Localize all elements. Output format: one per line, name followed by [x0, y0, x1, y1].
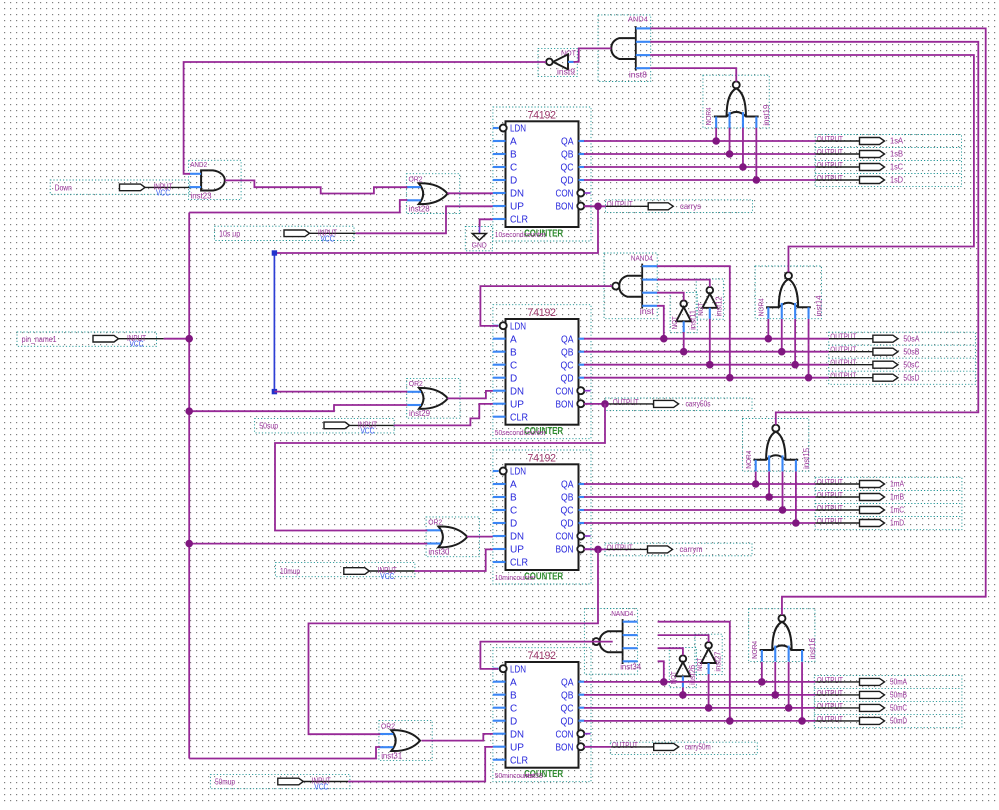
svg-text:CON: CON [556, 386, 574, 397]
junction dot BON U2 [601, 400, 609, 408]
junction dots NAND/NOT taps on 50s nets [660, 335, 668, 343]
svg-text:NAND4: NAND4 [631, 256, 653, 263]
svg-text:inst: inst [640, 307, 655, 316]
junction dot bus/pin_name1 [185, 335, 193, 343]
svg-text:B: B [510, 690, 517, 701]
wire: U2 BON to carry50s output [584, 403, 606, 405]
node: QB net U3 (1mB) [584, 496, 816, 498]
svg-text:CLR: CLR [510, 558, 528, 569]
wire: NAND4 inst34 input4 to QA net U4 [658, 661, 664, 682]
selection box: carry50m output [610, 742, 757, 754]
svg-text:QA: QA [561, 334, 574, 345]
input pin 10s up [215, 226, 356, 243]
NAND4 gate inst34 [584, 609, 641, 675]
svg-text:QD: QD [561, 716, 574, 727]
OR2 gate inst28 [406, 174, 459, 214]
svg-text:C: C [510, 703, 517, 714]
svg-text:BON: BON [556, 202, 574, 213]
svg-text:inst34: inst34 [620, 663, 642, 672]
wire: left vertical feedback bus [188, 213, 190, 759]
svg-text:NOR4: NOR4 [758, 298, 765, 316]
output pin carrym [607, 543, 703, 554]
svg-text:QC: QC [561, 506, 574, 517]
svg-text:QB: QB [561, 347, 574, 358]
NOT gate inst12 (vertical) [696, 279, 724, 319]
svg-text:UP: UP [510, 742, 524, 753]
svg-text:QA: QA [561, 137, 574, 148]
svg-text:1sB: 1sB [890, 149, 903, 159]
svg-text:50sup: 50sup [259, 421, 278, 431]
wire: NAND4 inst34 input1 to QD net U4 [658, 622, 730, 721]
svg-text:QD: QD [561, 519, 574, 530]
svg-text:UP: UP [510, 202, 524, 213]
svg-text:OUTPUT: OUTPUT [830, 346, 856, 355]
svg-text:carrym: carrym [680, 544, 703, 554]
wire: NOT inst26 input to QB net U4 [682, 687, 684, 695]
wire: bus to OR2 inst30 input2 [189, 543, 427, 545]
wire: NOT inst12 input to QC net U2 [709, 319, 711, 365]
svg-text:QB: QB [561, 150, 574, 161]
output pin 50mC [816, 702, 908, 713]
output pin 50mB [816, 689, 908, 700]
74192 counter U1 '10secondcounter' [493, 107, 591, 241]
svg-text:DN: DN [510, 386, 524, 397]
svg-text:LDN: LDN [510, 321, 526, 332]
svg-text:inst30: inst30 [428, 548, 450, 557]
input pin pin_name1 [17, 332, 164, 349]
svg-text:pin_name1: pin_name1 [22, 334, 57, 344]
selection box: carrym output [605, 543, 752, 556]
wire: carrys feedback to OR2 inst29 input1 [274, 391, 407, 393]
junction dots on 50s nets [765, 335, 773, 343]
svg-text:UP: UP [510, 399, 524, 410]
svg-text:CON: CON [556, 729, 574, 740]
svg-text:A: A [510, 334, 517, 345]
svg-text:OUTPUT: OUTPUT [817, 161, 843, 170]
wire: NOR4 inst14 inputs down to 50s nets [767, 319, 769, 339]
svg-text:DN: DN [510, 729, 524, 740]
svg-text:carry50m: carry50m [685, 742, 711, 752]
wire: bus to OR2 inst29 input2 [189, 405, 407, 411]
wire: OR2 inst30 output to U3 DN [467, 536, 493, 538]
svg-text:CON: CON [556, 532, 574, 543]
svg-text:OUTPUT: OUTPUT [612, 741, 638, 750]
svg-text:VCC: VCC [321, 234, 335, 243]
OR2 gate inst29 [407, 378, 460, 418]
svg-text:NOR4: NOR4 [706, 107, 713, 125]
node: QB net U4 (50mB) [584, 694, 816, 696]
svg-text:inst12: inst12 [715, 296, 724, 317]
svg-text:UP: UP [510, 545, 524, 556]
selection box: 50m outputs group [814, 676, 962, 728]
svg-text:50mC: 50mC [890, 703, 907, 713]
svg-text:carrys: carrys [680, 201, 701, 211]
node: QA net U4 (50mA) [584, 681, 816, 683]
svg-text:NAND4: NAND4 [611, 611, 633, 618]
node: QA net U1 (1sA) [584, 140, 816, 142]
svg-text:C: C [510, 360, 517, 371]
ground GND [465, 227, 492, 251]
svg-text:CLR: CLR [510, 412, 528, 423]
svg-text:OUTPUT: OUTPUT [817, 702, 843, 711]
svg-text:74192: 74192 [528, 650, 557, 662]
node: QD net U3 (1mD) [584, 522, 816, 524]
svg-text:B: B [510, 493, 517, 504]
svg-text:QC: QC [561, 703, 574, 714]
svg-text:OUTPUT: OUTPUT [817, 504, 843, 513]
svg-text:VCC: VCC [130, 340, 144, 349]
svg-text:BON: BON [556, 545, 574, 556]
74192 counter U3 '10mincounter' [493, 450, 591, 584]
output pin 50sD [829, 372, 920, 383]
svg-text:OUTPUT: OUTPUT [817, 715, 843, 724]
svg-text:OUTPUT: OUTPUT [817, 174, 843, 183]
input pin 10mup [275, 562, 415, 581]
svg-text:OUTPUT: OUTPUT [830, 359, 856, 368]
node: QB net U2 (50sB) [584, 351, 829, 353]
wire: NOT inst11 input to QB net U2 [683, 332, 685, 352]
svg-text:DN: DN [510, 532, 524, 543]
svg-text:carry50s: carry50s [686, 399, 711, 409]
svg-text:GND: GND [472, 240, 488, 249]
svg-text:OUTPUT: OUTPUT [817, 689, 843, 698]
svg-text:QA: QA [561, 677, 574, 688]
svg-text:1sA: 1sA [890, 136, 903, 146]
wire: OR2 inst31 output to U4 DN [422, 734, 493, 741]
NOT gate inst9 (mirrored) [538, 49, 577, 77]
svg-text:QA: QA [561, 480, 574, 491]
svg-text:74192: 74192 [528, 452, 557, 464]
wire: NAND4 inst input3 to NOT inst11 [657, 293, 684, 301]
svg-text:50sA: 50sA [903, 333, 919, 343]
output pin 50mA [816, 676, 908, 687]
svg-text:Down: Down [55, 183, 72, 193]
selection box: 1m outputs group [815, 477, 962, 529]
svg-text:inst23: inst23 [191, 192, 213, 201]
NOT gate inst11 (vertical) [670, 293, 698, 333]
wire: AND4 inst8 input1 from NOR4 inst16 output (right edge outer loop) [650, 28, 986, 615]
selection box: carrys output [606, 200, 753, 213]
NOR4 gate inst16 [749, 609, 817, 662]
svg-text:1mA: 1mA [890, 479, 904, 489]
svg-text:inst14: inst14 [814, 295, 823, 317]
svg-text:1sC: 1sC [890, 162, 903, 172]
output pin 1mD [816, 517, 905, 528]
svg-text:NOR4: NOR4 [752, 641, 759, 659]
svg-text:OUTPUT: OUTPUT [830, 372, 856, 381]
selection box: carry50s output [605, 398, 752, 411]
node: QD net U1 (1sD) [584, 179, 816, 181]
NOT gate inst27 (vertical) [695, 634, 723, 674]
wire: U4 UP from input 50mup [348, 747, 493, 782]
wire: NAND4 inst34 output to U4 LDN [480, 642, 612, 669]
svg-text:D: D [510, 176, 517, 187]
svg-text:AND2: AND2 [190, 162, 207, 169]
svg-text:74192: 74192 [528, 109, 557, 121]
AND2 gate inst23 [189, 160, 242, 200]
svg-text:50mD: 50mD [890, 716, 907, 726]
output pin 1sA [816, 135, 904, 146]
NOR4 gate inst14 [755, 266, 823, 319]
wire: bus bottom to OR2 inst31 input2 [189, 747, 380, 759]
svg-text:CLR: CLR [510, 755, 528, 766]
wire: NAND4 inst input4 to QA net U2 [657, 306, 664, 339]
wire: U1 BON to carrys output and feedback [584, 205, 606, 207]
svg-text:inst11: inst11 [689, 309, 698, 330]
output pin 1sD [816, 174, 904, 185]
svg-text:50secondcounter: 50secondcounter [495, 430, 547, 437]
svg-text:B: B [510, 150, 517, 161]
svg-text:NOR4: NOR4 [746, 451, 753, 469]
svg-text:A: A [510, 137, 517, 148]
svg-text:QC: QC [561, 360, 574, 371]
node: QA net U2 (50sA) [584, 338, 829, 340]
svg-text:OUTPUT: OUTPUT [613, 398, 639, 407]
svg-text:inst31: inst31 [381, 751, 403, 760]
svg-text:C: C [510, 506, 517, 517]
NOR4 gate inst19 [703, 75, 771, 128]
selection box: 1s outputs group [815, 135, 961, 187]
svg-text:A: A [510, 480, 517, 491]
svg-text:QB: QB [561, 493, 574, 504]
svg-text:1mD: 1mD [890, 518, 904, 528]
svg-text:10mincounter: 10mincounter [495, 575, 536, 582]
node: QB net U1 (1sB) [584, 153, 816, 155]
svg-text:NOT: NOT [672, 316, 679, 330]
svg-text:1mB: 1mB [890, 492, 904, 502]
junction dots NAND34/NOT taps on 50m nets [660, 678, 668, 686]
svg-text:50mA: 50mA [890, 677, 907, 687]
NAND4 gate inst [604, 253, 657, 319]
svg-text:OUTPUT: OUTPUT [817, 148, 843, 157]
junction dot bus/inst30 [185, 540, 193, 548]
svg-text:LDN: LDN [510, 124, 526, 135]
junction dots on 1s nets [712, 137, 720, 145]
svg-text:B: B [510, 347, 517, 358]
wire: carrym feedback to OR2 inst31 input1 [309, 549, 599, 734]
74192 counter U2 '50secondcounter' [493, 305, 591, 439]
svg-text:NOT: NOT [698, 302, 705, 316]
output pin carrys [606, 200, 701, 211]
wire: U3 UP from input 10mup [415, 549, 493, 571]
wire: U3 BON to carrym output [584, 548, 607, 550]
wire: carrys feedback down-left [274, 206, 598, 253]
svg-text:10mup: 10mup [280, 566, 300, 576]
wire: NAND4 inst input1 to QD net U2 [657, 266, 730, 378]
wire: AND2 inst23 output to OR2 inst28 input1 [225, 180, 407, 193]
output pin 1mA [816, 478, 905, 489]
output pin 50sA [829, 333, 920, 344]
wire: AND4 inst8 input4 from NOR4 inst19 output [650, 68, 736, 82]
AND4 gate inst8 [598, 15, 651, 82]
output pin carry50m [611, 741, 711, 752]
wire: U1 UP from input 10s up [356, 206, 493, 233]
junction dots on 1m nets [752, 480, 760, 488]
svg-text:74192: 74192 [528, 307, 557, 319]
svg-text:NOT: NOT [697, 657, 704, 671]
svg-text:inst27: inst27 [714, 651, 723, 672]
NOT gate inst26 (vertical) [669, 648, 697, 688]
wire: NAND4 inst output to U2 LDN [480, 286, 612, 326]
output pin carry50s [606, 398, 711, 409]
svg-text:QD: QD [561, 176, 574, 187]
svg-text:VCC: VCC [314, 783, 328, 792]
wire: OR2 inst28 output to U1 DN [447, 192, 492, 194]
wire: U1 CLR to GND [480, 219, 493, 227]
svg-text:D: D [510, 519, 517, 530]
output pin 50mD [816, 715, 908, 726]
output pin 50sC [829, 359, 920, 370]
wire: NOR4 inst15 inputs down to 1m nets [755, 472, 757, 485]
wire: NOR4 inst16 inputs down to 50m nets [761, 662, 763, 682]
output pin 50sB [829, 346, 920, 357]
svg-text:inst19: inst19 [762, 104, 771, 126]
svg-text:50sB: 50sB [903, 346, 919, 356]
OR2 gate inst30 [426, 517, 479, 557]
svg-text:QB: QB [561, 690, 574, 701]
svg-text:OUTPUT: OUTPUT [607, 200, 633, 209]
svg-text:C: C [510, 163, 517, 174]
svg-text:AND4: AND4 [628, 17, 648, 24]
output pin 1mC [816, 504, 905, 515]
node: QC net U2 (50sC) [584, 364, 829, 366]
junction dot BON U3 [594, 546, 602, 554]
wire: input pin_name1 to bus [164, 338, 190, 340]
wire: AND4 inst8 input3 from NOR4 inst14 output (right edge inner loop) [650, 55, 974, 272]
svg-text:CON: CON [556, 189, 574, 200]
svg-text:OUTPUT: OUTPUT [607, 543, 633, 552]
svg-text:1sD: 1sD [890, 175, 903, 185]
74192 counter U4 '50mincounter' [493, 648, 591, 782]
NOR4 gate inst15 [743, 419, 811, 472]
svg-text:OUTPUT: OUTPUT [817, 517, 843, 526]
svg-text:inst29: inst29 [409, 409, 431, 418]
svg-text:50sC: 50sC [903, 359, 919, 369]
svg-text:OUTPUT: OUTPUT [817, 478, 843, 487]
svg-text:QD: QD [561, 373, 574, 384]
svg-text:50sD: 50sD [903, 372, 919, 382]
input pin Down [50, 180, 190, 197]
svg-text:OUTPUT: OUTPUT [817, 135, 843, 144]
svg-text:10secondcounter: 10secondcounter [495, 232, 547, 239]
output pin 1mB [816, 491, 905, 502]
OR2 gate inst31 [379, 721, 432, 761]
svg-text:OUTPUT: OUTPUT [830, 333, 856, 342]
output pin 1sB [816, 148, 904, 159]
svg-text:inst9: inst9 [557, 68, 576, 77]
junction dots on 50m nets [758, 678, 766, 686]
svg-text:inst15: inst15 [802, 447, 811, 469]
wire (selected, blue): carrys feedback vertical segment [273, 253, 275, 392]
wire: NAND4 inst34 input2 to NOT inst27 [658, 635, 709, 642]
svg-text:A: A [510, 677, 517, 688]
svg-text:OUTPUT: OUTPUT [817, 491, 843, 500]
svg-text:50mB: 50mB [890, 690, 907, 700]
wire: carry50s feedback to OR2 inst30 input1 [275, 404, 605, 531]
svg-text:LDN: LDN [510, 467, 526, 478]
svg-text:1mC: 1mC [890, 505, 904, 515]
input pin 50sup [255, 419, 395, 436]
svg-text:VCC: VCC [361, 426, 375, 435]
wire: NOT inst27 input to QC net U4 [708, 674, 710, 708]
svg-text:10s up: 10s up [219, 229, 240, 239]
svg-text:D: D [510, 373, 517, 384]
wire: U4 BON to carry50m output [584, 746, 611, 748]
svg-text:DN: DN [510, 189, 524, 200]
output pin 1sC [816, 161, 904, 172]
input pin 50mup [210, 774, 350, 791]
svg-text:50mup: 50mup [215, 777, 235, 787]
node: QA net U3 (1mA) [584, 483, 816, 485]
node: QD net U2 (50sD) [584, 377, 829, 379]
svg-text:VCC: VCC [380, 572, 394, 581]
svg-text:inst8: inst8 [629, 71, 648, 80]
wire: OR2 inst29 output to U2 DN [447, 391, 492, 399]
svg-text:inst33: inst33 [524, 773, 543, 780]
junction dot BON U1 [594, 203, 602, 211]
svg-text:inst16: inst16 [808, 638, 817, 660]
svg-text:inst28: inst28 [409, 204, 431, 213]
svg-text:VCC: VCC [156, 188, 170, 197]
svg-text:LDN: LDN [510, 664, 526, 675]
svg-text:BON: BON [556, 399, 574, 410]
svg-text:OUTPUT: OUTPUT [817, 676, 843, 685]
wire: NAND4 inst34 input3 to NOT inst26 [658, 648, 683, 655]
svg-text:D: D [510, 716, 517, 727]
svg-text:BON: BON [556, 742, 574, 753]
wire: NAND4 inst input2 to NOT inst12 [657, 280, 710, 287]
wire: AND4 inst8 output to NOT inst9 input [574, 48, 612, 62]
wire: NOT inst9 output to AND2 inst23 input1 [184, 62, 546, 174]
wire: U2 UP from input 50sup [394, 404, 493, 426]
svg-text:CLR: CLR [510, 215, 528, 226]
node: QD net U4 (50mD) [584, 720, 816, 722]
node: QC net U1 (1sC) [584, 166, 816, 168]
node: QC net U4 (50mC) [584, 707, 816, 709]
wire: AND4 inst8 input2 from NOR4 inst15 output (right edge middle loop) [650, 42, 978, 425]
junction dot bus/inst29 [185, 407, 193, 415]
node: QC net U3 (1mC) [584, 509, 816, 511]
selection box: 50s outputs group [829, 332, 976, 384]
wire: left feedback bus from corner to OR2 inst28 input2 [189, 200, 407, 213]
wire: NOR4 inst19 inputs down to 1s output nets [715, 128, 717, 141]
svg-text:QC: QC [561, 163, 574, 174]
